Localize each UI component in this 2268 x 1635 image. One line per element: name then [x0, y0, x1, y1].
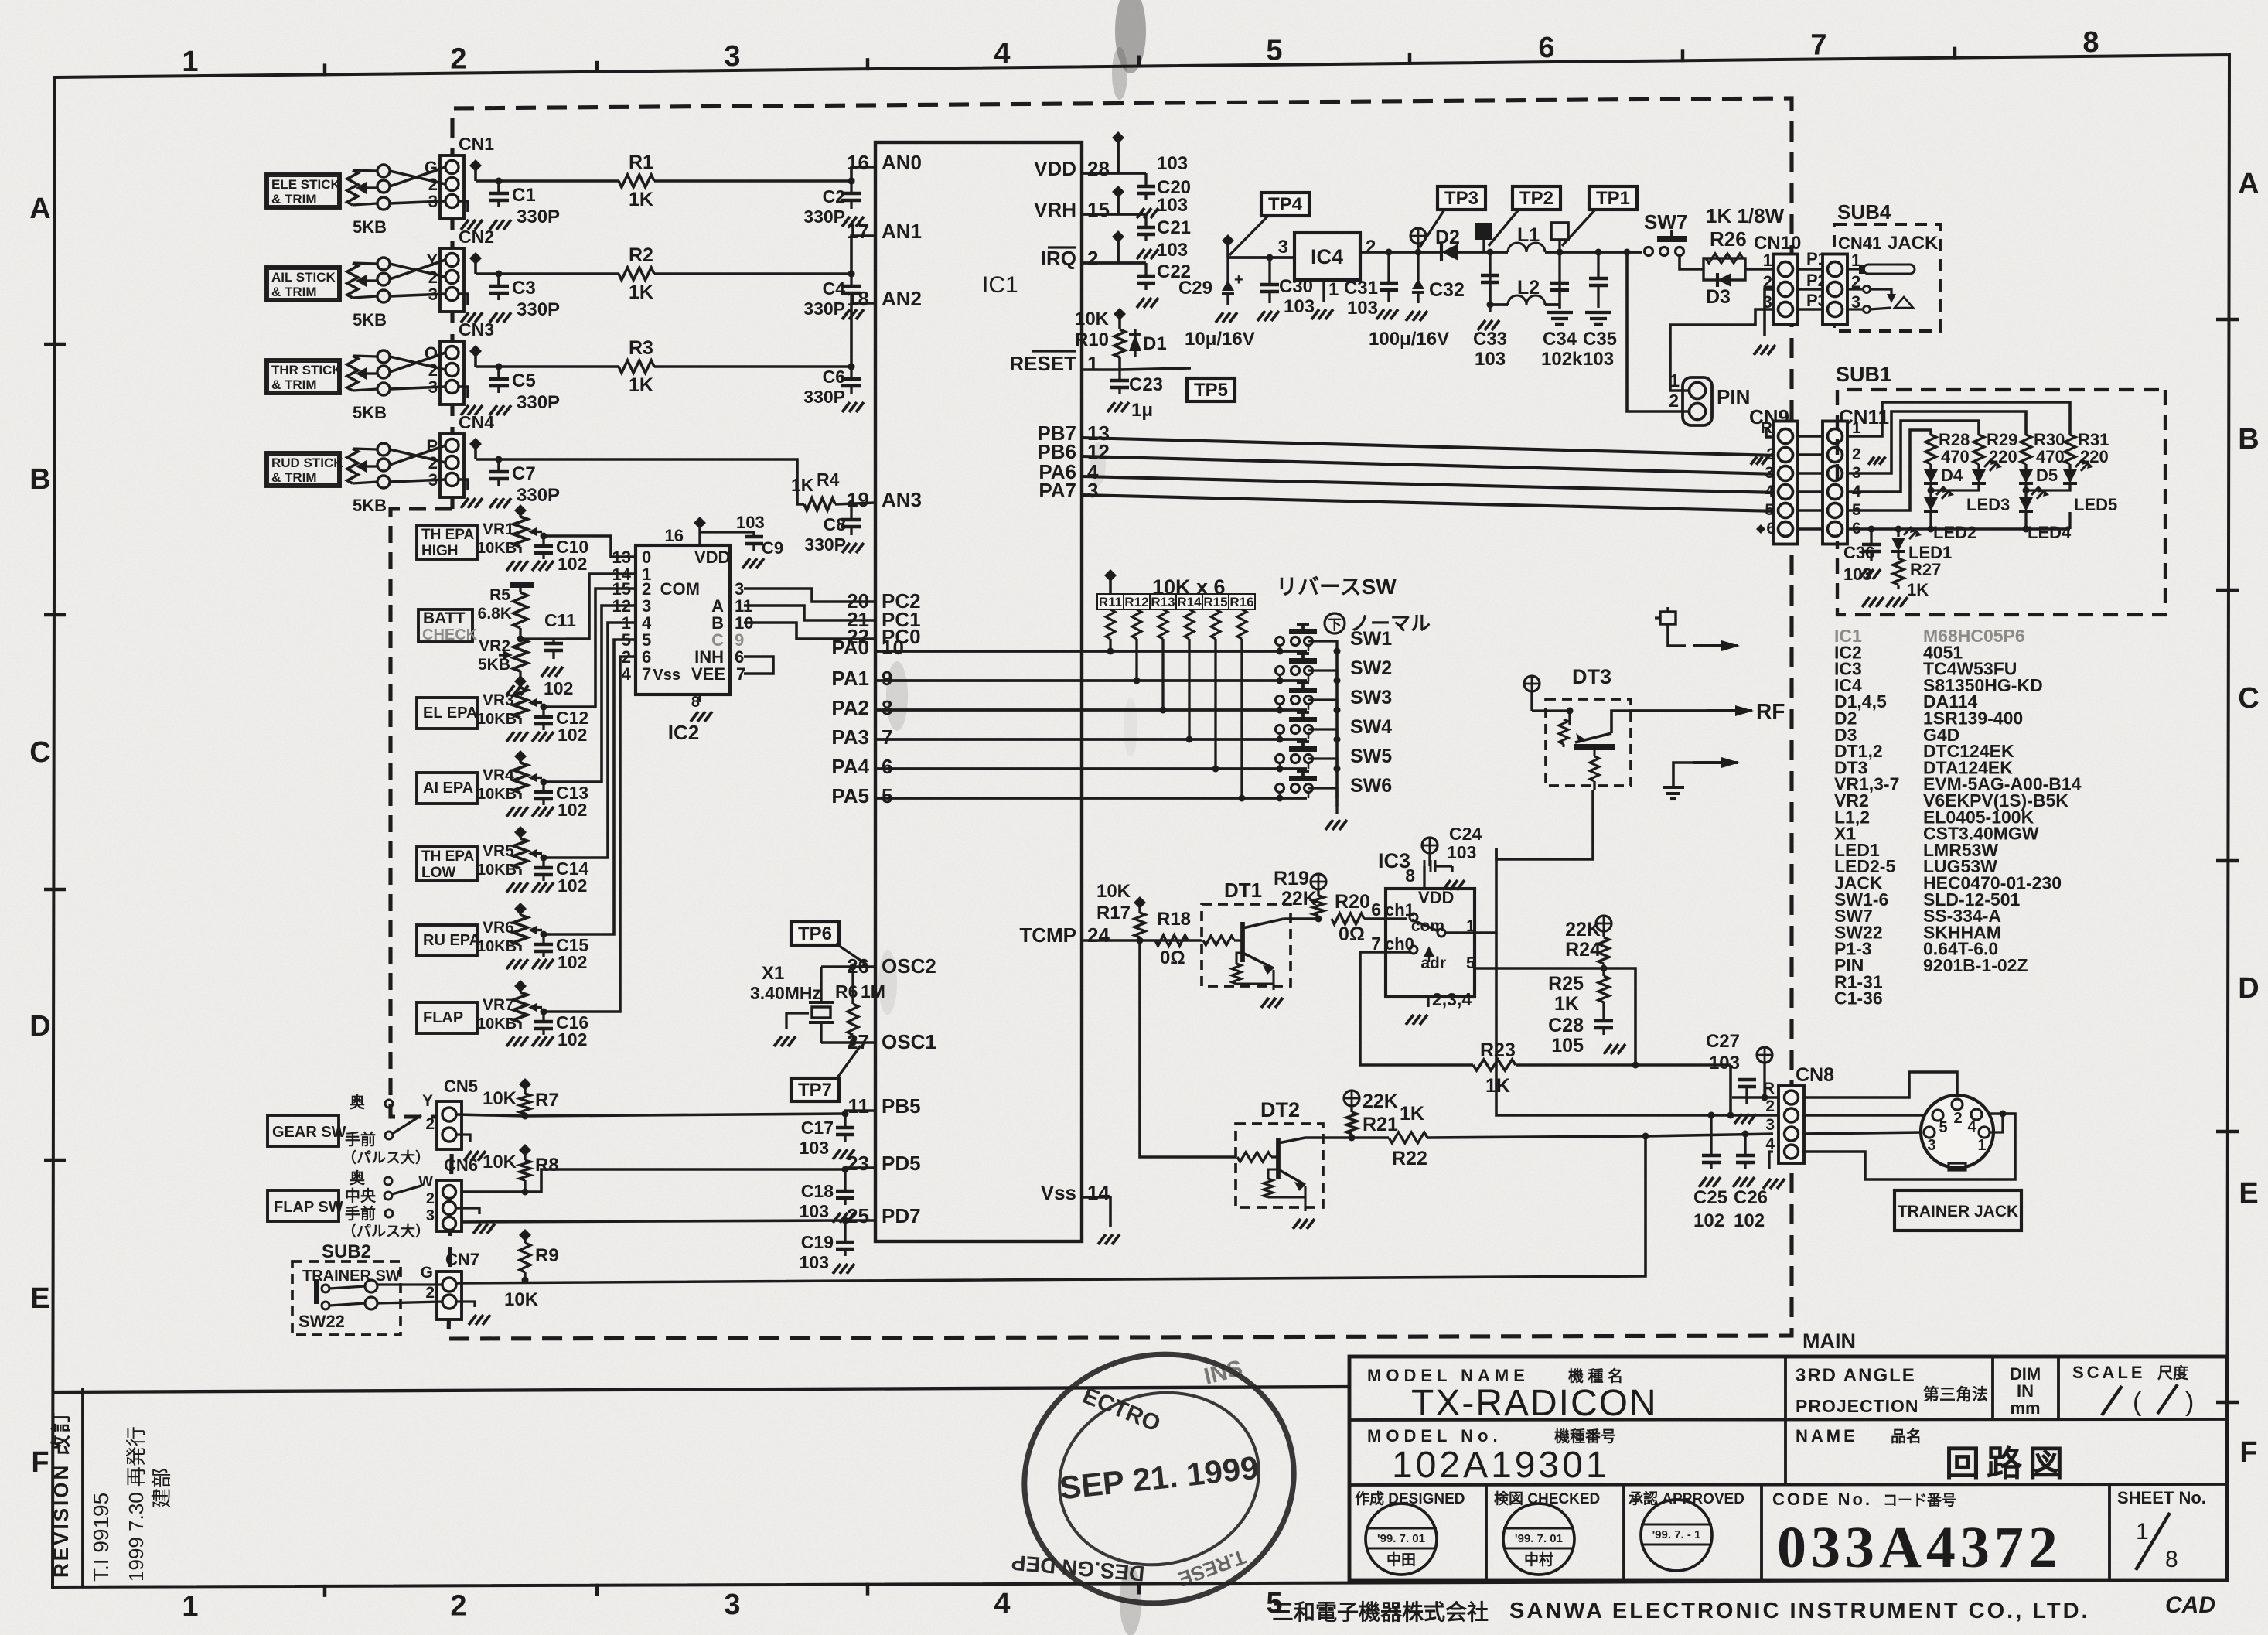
wire CN3 pin3 to ground [459, 387, 468, 398]
svg-text:PROJECTION: PROJECTION [1796, 1396, 1919, 1416]
capacitor C23 1u [1118, 370, 1120, 379]
wire crossover CN1 [390, 171, 445, 184]
svg-text:102: 102 [544, 678, 573, 698]
svg-text:2: 2 [1766, 445, 1775, 463]
svg-text:SW3: SW3 [1350, 687, 1392, 708]
svg-text:105: 105 [1551, 1035, 1584, 1056]
svg-text:W: W [418, 1173, 433, 1190]
wire VR5 wiper to IC2 pin 1 [544, 623, 636, 858]
svg-text:C35: C35 [1583, 329, 1617, 350]
resistor R12 10K [1124, 594, 1150, 609]
capacitor C18 103 [844, 1169, 846, 1190]
svg-text:B: B [29, 463, 50, 496]
svg-text:LED5: LED5 [2074, 495, 2117, 514]
svg-text:IC2: IC2 [668, 721, 699, 744]
svg-text:5: 5 [1466, 954, 1475, 972]
capacitor C2 330P on AN0 line [848, 178, 855, 185]
svg-text:'99. 7. 01: '99. 7. 01 [1377, 1532, 1425, 1545]
double-line ground under C34 [1547, 311, 1573, 314]
wire PA6 to CN9 pin4 [1082, 476, 1779, 493]
svg-text:TP1: TP1 [1596, 188, 1630, 209]
wire IC2 INH/VEE to ground rail [744, 657, 773, 674]
wire R23 to CN8 pin2 [1729, 1065, 1732, 1115]
svg-text:TP2: TP2 [1519, 188, 1553, 209]
svg-text:2: 2 [1087, 247, 1098, 270]
svg-text:LED2: LED2 [1933, 523, 1976, 542]
svg-text:建部: 建部 [150, 1468, 173, 1508]
wire CN11 pin5 to R28 column [1847, 430, 1931, 510]
ELE STICK & TRIM input box [266, 174, 340, 208]
svg-text:中央: 中央 [345, 1186, 377, 1205]
svg-text:C5: C5 [512, 370, 536, 391]
resistor R9 10K [519, 1229, 531, 1241]
GEAR SW label box [268, 1115, 339, 1146]
svg-text:PA4: PA4 [831, 755, 869, 778]
svg-text:5: 5 [1765, 501, 1774, 519]
svg-text:5KB: 5KB [353, 217, 387, 237]
svg-text:C1: C1 [512, 185, 536, 206]
IRQ pin decoupling capacitor C22 103 [1082, 261, 1118, 265]
svg-text:CN4: CN4 [459, 412, 494, 432]
normal label with down symbol [1325, 613, 1345, 633]
svg-text:R19: R19 [1274, 868, 1309, 889]
wire SW2 to ground bus [1308, 671, 1337, 681]
svg-text:102: 102 [1693, 1210, 1724, 1231]
svg-text:033A4372: 033A4372 [1777, 1515, 2062, 1580]
wire R21 node to R22 [1352, 1136, 1389, 1139]
svg-text:B: B [2238, 423, 2259, 456]
AI EPA label box [417, 773, 477, 804]
node CN1 output [469, 159, 482, 172]
svg-text:10K: 10K [483, 1152, 517, 1172]
svg-text:C: C [2238, 682, 2259, 715]
svg-text:102A19301: 102A19301 [1392, 1445, 1610, 1486]
wire CN8 pin3 to DIN pin3 [1802, 1132, 1923, 1134]
SUB4 dashed box [1834, 224, 1940, 331]
svg-text:2: 2 [425, 1115, 435, 1133]
svg-text:5KB: 5KB [353, 403, 387, 422]
node R5/VR2/C11 [517, 636, 524, 643]
svg-text:2: 2 [450, 43, 466, 76]
svg-text:9: 9 [882, 667, 892, 690]
svg-text:SW5: SW5 [1350, 746, 1392, 767]
wire VR4 wiper [542, 780, 544, 783]
svg-text:330P: 330P [517, 299, 560, 320]
IC2 pin 16 VDD supply [694, 517, 706, 529]
svg-text:中田: 中田 [1386, 1551, 1416, 1568]
DIN pin1 stub [1990, 1114, 2003, 1132]
wire rail to DT3 emitter [1496, 790, 1593, 859]
svg-text:5: 5 [1266, 35, 1282, 67]
svg-text:C29: C29 [1178, 278, 1212, 299]
wire into IC4 pin3 [1228, 256, 1294, 259]
svg-text:10K: 10K [483, 1088, 517, 1109]
svg-text:AN1: AN1 [882, 220, 922, 243]
svg-text:TP3: TP3 [1444, 188, 1478, 209]
svg-text:E: E [2239, 1177, 2258, 1210]
wire CN11 pin3 to R30 column [1847, 411, 2026, 473]
capacitor C11 102 [520, 637, 566, 640]
svg-text:奥: 奥 [350, 1093, 366, 1111]
DT3 emitter resistor [1593, 750, 1595, 756]
svg-text:5: 5 [882, 784, 892, 807]
capacitor C4 330P on AN1 line [848, 271, 855, 278]
wire DT3 collector to RF arrow [1629, 709, 1740, 712]
svg-text:4: 4 [994, 37, 1010, 70]
analog multiplexer IC2 box [636, 545, 730, 695]
resistor R15 10K [1202, 594, 1229, 609]
wire VR7 wiper [542, 1010, 544, 1012]
svg-text:手前: 手前 [345, 1204, 376, 1223]
svg-text:2: 2 [1669, 391, 1679, 411]
capacitor C33 103 [1489, 252, 1491, 305]
TH EPA HIGH label box [417, 525, 477, 559]
jack tip triangle [1895, 297, 1913, 308]
CN41 pin3 contact [1847, 308, 1862, 310]
DIN pin 3 [1924, 1127, 1935, 1138]
DIN pin 5 [1932, 1110, 1943, 1121]
svg-text:C17: C17 [801, 1118, 834, 1138]
wire VR3 wiper [542, 705, 544, 708]
svg-text:+: + [1234, 271, 1243, 288]
svg-text:Y: Y [422, 1092, 433, 1110]
svg-text:5KB: 5KB [353, 496, 387, 515]
svg-text:AN2: AN2 [882, 287, 922, 310]
wire LED3 to D4 junction [1931, 484, 1979, 490]
svg-text:（パルス大）: （パルス大） [342, 1222, 430, 1240]
svg-text:SW22: SW22 [298, 1312, 345, 1331]
svg-text:103: 103 [1284, 296, 1315, 317]
svg-text:102: 102 [558, 876, 587, 896]
svg-text:C25: C25 [1693, 1187, 1727, 1208]
svg-text:102: 102 [1734, 1210, 1765, 1231]
svg-text:OSC2: OSC2 [882, 954, 936, 978]
voltage regulator IC4 box [1294, 233, 1360, 280]
svg-text:100μ/16V: 100μ/16V [1369, 329, 1449, 350]
svg-text:NAME: NAME [1796, 1426, 1858, 1446]
svg-text:0Ω: 0Ω [1160, 947, 1185, 968]
svg-text:10KB: 10KB [477, 786, 517, 803]
svg-text:2: 2 [426, 1190, 435, 1207]
svg-text:R12: R12 [1124, 595, 1148, 609]
capacitor C1 330P [497, 181, 500, 193]
svg-text:7: 7 [642, 664, 651, 684]
svg-text:C9: C9 [762, 538, 783, 558]
svg-text:3.40MHz: 3.40MHz [750, 983, 821, 1003]
svg-text:VDD: VDD [1034, 157, 1076, 180]
svg-text:& TRIM: & TRIM [271, 470, 317, 485]
DIN pin 2 [1952, 1099, 1963, 1110]
svg-text:1K: 1K [791, 475, 814, 495]
svg-text:C24: C24 [1449, 824, 1482, 844]
svg-text:5: 5 [1939, 1119, 1947, 1136]
svg-text:2: 2 [450, 1589, 466, 1622]
svg-text:CN10: CN10 [1754, 233, 1801, 254]
test point TP4 [1261, 193, 1309, 216]
svg-text:FLAP SW: FLAP SW [274, 1199, 343, 1216]
top column tick marks [323, 63, 326, 76]
wire CN2 pin3 to ground [459, 294, 468, 305]
sheet number 1/8 [2136, 1513, 2170, 1570]
svg-text:品名: 品名 [1891, 1427, 1922, 1446]
svg-text:CODE No.: CODE No. [1772, 1490, 1872, 1509]
VRH pin decoupling capacitor C21 103 [1082, 213, 1118, 216]
diode D5 [2024, 464, 2027, 469]
wire VR1 wiper [542, 534, 544, 537]
svg-text:470: 470 [1941, 447, 1970, 466]
svg-text:103: 103 [1157, 153, 1188, 174]
svg-text:AI EPA: AI EPA [423, 780, 473, 797]
microcontroller IC1 box [875, 142, 1082, 1241]
svg-text:承認 APPROVED: 承認 APPROVED [1629, 1490, 1744, 1507]
svg-text:SANWA ELECTRONIC INSTRUMENT CO: SANWA ELECTRONIC INSTRUMENT CO., LTD. [1509, 1599, 2090, 1623]
svg-text:尺度: 尺度 [2157, 1364, 2189, 1382]
svg-text:PB5: PB5 [882, 1094, 921, 1118]
svg-text:VRH: VRH [1034, 198, 1076, 221]
TRAINER JACK label box [1895, 1190, 2021, 1231]
capacitor C12 102 [542, 707, 544, 717]
svg-text:10KB: 10KB [477, 938, 517, 955]
capacitor C16 102 [542, 1012, 544, 1022]
capacitor C3 330P [497, 274, 500, 286]
svg-text:3RD ANGLE: 3RD ANGLE [1796, 1365, 1916, 1386]
svg-text:3: 3 [1087, 479, 1098, 502]
svg-text:R8: R8 [535, 1155, 559, 1176]
svg-text:PA7: PA7 [1039, 479, 1076, 502]
resistor R27 1K [1897, 552, 1899, 558]
capacitor C17 103 [844, 1114, 846, 1126]
svg-text:A: A [2238, 168, 2259, 200]
wire crossover CN2 [390, 264, 445, 277]
svg-text:1M: 1M [861, 981, 885, 1002]
THR STICK & TRIM input box [266, 360, 340, 394]
DT2 input resistor [1237, 1152, 1271, 1162]
wire IC2 COM to IC1 PC2 [744, 589, 875, 602]
right row tick marks [2216, 318, 2239, 321]
wire PB7 to CN9 pin2 [1082, 438, 1779, 456]
svg-text:3: 3 [1927, 1137, 1935, 1154]
potentiometer 5KB (CN1) [347, 170, 358, 205]
svg-text:VR4: VR4 [483, 766, 514, 784]
svg-text:R16: R16 [1229, 595, 1253, 609]
power tap above R5 [510, 582, 534, 588]
svg-text:7: 7 [882, 725, 892, 749]
svg-text:TH EPA: TH EPA [421, 527, 475, 543]
svg-text:R2: R2 [629, 244, 653, 266]
svg-text:10KB: 10KB [477, 540, 517, 557]
wire CN8 pin R loop to DIN [1802, 1072, 1957, 1097]
title block row line 1 [1349, 1419, 2227, 1420]
wire R12 to PA1 [1135, 639, 1137, 681]
svg-text:R7: R7 [535, 1090, 559, 1111]
svg-text:中村: 中村 [1524, 1551, 1553, 1568]
svg-text:1K: 1K [1485, 1075, 1510, 1097]
svg-text:330P: 330P [517, 485, 560, 506]
resistor R21 22K [1344, 1091, 1359, 1106]
EPA sub-board dashed outline [391, 509, 452, 1117]
svg-text:TX-RADICON: TX-RADICON [1411, 1383, 1658, 1424]
svg-text:奥: 奥 [350, 1169, 366, 1187]
wire PA1 row [875, 679, 1307, 682]
svg-text:3: 3 [1765, 1116, 1775, 1134]
node CN2 output [469, 252, 482, 265]
svg-text:MAIN: MAIN [1802, 1330, 1856, 1353]
svg-text:回路図: 回路図 [1945, 1443, 2070, 1483]
svg-text:SCALE: SCALE [2072, 1363, 2146, 1382]
svg-text:R: R [1763, 1080, 1775, 1097]
svg-text:103: 103 [800, 1201, 829, 1221]
wires CN9 to CN11 [1797, 435, 1823, 438]
svg-text:R20: R20 [1335, 891, 1370, 913]
svg-text:7: 7 [1371, 934, 1381, 954]
TH EPA LOW label box [417, 847, 477, 881]
wire LED5 to D5 junction [2026, 484, 2070, 490]
DT1 transistor [1240, 922, 1245, 962]
connector CN2 [440, 248, 464, 312]
wire PB6 to CN9 pin3 [1082, 456, 1779, 474]
svg-text:TP4: TP4 [1268, 194, 1303, 215]
potentiometer VR6 10KB [514, 903, 527, 915]
antenna stub symbol [1660, 612, 1676, 624]
diode D1 [1134, 329, 1136, 357]
capacitor C13 102 [542, 782, 544, 792]
svg-text:2: 2 [425, 1284, 435, 1302]
svg-text:VDD: VDD [1418, 888, 1454, 907]
test point TP3 [1438, 186, 1485, 210]
ground under CN1 [461, 220, 469, 230]
svg-text:102: 102 [558, 952, 587, 972]
wire SW7 to R26 [1680, 256, 1704, 269]
svg-text:CN7: CN7 [445, 1250, 479, 1269]
test point TP6 [791, 922, 839, 945]
wire CN2 row to IC1 [476, 272, 619, 275]
svg-text:10μ/16V: 10μ/16V [1185, 329, 1255, 350]
capacitor C35 103 [1595, 249, 1602, 256]
capacitor C30 103 [1267, 254, 1274, 261]
svg-text:R1: R1 [629, 152, 653, 173]
svg-text:C18: C18 [801, 1181, 834, 1201]
svg-text:R11: R11 [1099, 595, 1122, 609]
svg-text:10K: 10K [504, 1289, 539, 1310]
capacitor C34 102k [1558, 305, 1560, 308]
capacitor C32 100u/16V + [1417, 252, 1419, 282]
wire R14 to PA3 [1188, 639, 1190, 739]
svg-text:R26: R26 [1710, 227, 1747, 251]
svg-text:C1-36: C1-36 [1834, 988, 1883, 1009]
svg-text:RF: RF [1756, 699, 1785, 723]
svg-text:8: 8 [882, 696, 892, 719]
svg-text:(: ( [2133, 1388, 2142, 1417]
svg-text:16: 16 [665, 526, 684, 545]
svg-text:1K 1/8W: 1K 1/8W [1706, 204, 1785, 227]
jack plug symbol [1847, 268, 1864, 270]
wire R16 to PA5 [1240, 639, 1243, 798]
wire TCMP [1082, 939, 1202, 942]
svg-text:CHECK: CHECK [422, 626, 478, 643]
capacitor C19 103 [844, 1220, 846, 1241]
svg-text:C27: C27 [1706, 1031, 1740, 1052]
third arrow with ground [1693, 761, 1738, 764]
svg-text:14: 14 [1087, 1181, 1110, 1204]
svg-text:R6: R6 [835, 981, 858, 1002]
svg-text:103: 103 [1709, 1053, 1740, 1074]
svg-text:4: 4 [994, 1588, 1010, 1620]
svg-text:102: 102 [558, 800, 587, 820]
svg-text:T.I 99195: T.I 99195 [89, 1493, 113, 1582]
wire PB5 row [525, 1114, 845, 1116]
svg-text:102k: 102k [1541, 349, 1583, 370]
svg-text:RU EPA: RU EPA [423, 932, 480, 949]
connector CN3 [440, 341, 464, 404]
svg-text:REVISION 改訂: REVISION 改訂 [49, 1411, 73, 1578]
svg-text:SW7: SW7 [1644, 210, 1687, 234]
svg-text:AIL STICK: AIL STICK [271, 270, 336, 285]
wire PA7 to CN9 pin5 [1082, 495, 1779, 511]
title block row line 2 [1349, 1484, 2227, 1485]
svg-text:JACK: JACK [1888, 233, 1939, 254]
svg-text:8: 8 [1405, 865, 1415, 886]
wire IC2 A to IC1 PC1 [744, 606, 875, 620]
wire VR1 wiper to IC2 pin 13 [544, 536, 636, 557]
wire R20 to IC3 ch1 [1364, 917, 1407, 920]
capacitor C15 102 [542, 934, 544, 944]
svg-text:VR6: VR6 [483, 919, 514, 937]
FLAP label box [417, 1002, 477, 1033]
svg-text:2: 2 [1765, 1097, 1775, 1115]
svg-text:330P: 330P [804, 534, 846, 555]
svg-text:10K: 10K [1096, 881, 1131, 902]
svg-text:103: 103 [1447, 842, 1476, 862]
scan fold smudge top center [1115, 0, 1146, 73]
svg-text:D5: D5 [2036, 466, 2058, 485]
svg-text:VR2: VR2 [479, 637, 510, 655]
DIN trainer jack connector circle [1921, 1095, 1993, 1168]
wire CN1 row to IC1 [476, 179, 619, 183]
svg-text:R9: R9 [535, 1245, 559, 1266]
svg-text:R10: R10 [1075, 329, 1109, 350]
svg-text:22K: 22K [1281, 888, 1317, 910]
svg-text:CN8: CN8 [1796, 1064, 1834, 1086]
svg-text:C3: C3 [512, 278, 536, 299]
svg-text:R18: R18 [1157, 909, 1191, 930]
grounds under VR1 [519, 547, 521, 553]
resistor R14 10K [1176, 594, 1202, 609]
DT1 emitter ground [1272, 984, 1274, 990]
svg-text:C31: C31 [1344, 278, 1378, 299]
DIN notch [1949, 1163, 1966, 1170]
capacitor C8 330P [848, 500, 855, 507]
svg-text:103: 103 [1843, 565, 1872, 584]
svg-text:D: D [29, 1010, 50, 1043]
svg-text:G: G [421, 1264, 433, 1282]
svg-text:1K: 1K [629, 189, 653, 210]
svg-text:1K: 1K [1554, 993, 1579, 1015]
resistor R13 10K [1150, 594, 1176, 609]
svg-text:CN6: CN6 [444, 1155, 478, 1175]
svg-text:RUD STICK: RUD STICK [271, 456, 343, 470]
svg-text:VR7: VR7 [483, 996, 514, 1014]
svg-text:VR1: VR1 [483, 521, 514, 538]
svg-text:C6: C6 [823, 367, 845, 387]
svg-text:1: 1 [182, 46, 198, 78]
svg-text:C34: C34 [1543, 329, 1577, 350]
svg-text:F: F [2239, 1436, 2257, 1469]
svg-text:C32: C32 [1429, 279, 1465, 301]
wire CN5 pin1 to PB5 [456, 1114, 525, 1116]
svg-text:TCMP: TCMP [1019, 923, 1076, 947]
svg-text:MODEL No.: MODEL No. [1367, 1426, 1502, 1446]
svg-text:28: 28 [1087, 157, 1110, 180]
